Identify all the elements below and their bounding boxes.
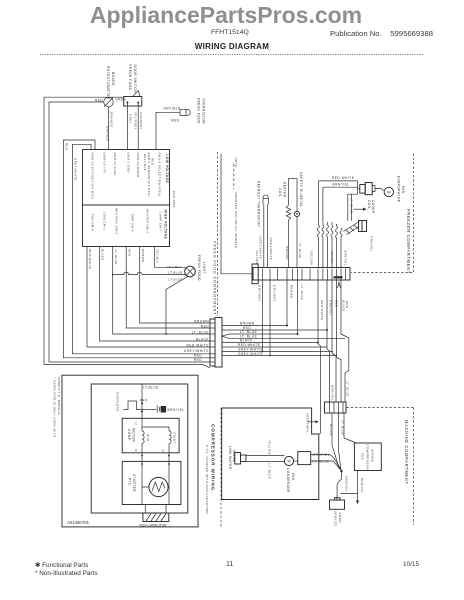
svg-text:M: M: [387, 190, 390, 195]
svg-text:LOW VOLTAGE: LOW VOLTAGE: [165, 155, 169, 184]
svg-text:GRN/YEL: GRN/YEL: [331, 385, 335, 401]
svg-text:FRESH FOOD: FRESH FOOD: [197, 255, 201, 281]
note: denotes not on all models: [234, 158, 238, 249]
svg-text:CMP CM-6: CMP CM-6: [131, 214, 135, 232]
svg-text:GND-16 +5V: GND-16 +5V: [103, 153, 107, 174]
svg-text:NOTE:: NOTE:: [234, 158, 238, 169]
svg-text:DOOR SWITCH: DOOR SWITCH: [133, 65, 137, 94]
ptc internal wires: [142, 461, 169, 504]
svg-text:GRY\BLK: GRY\BLK: [164, 107, 182, 111]
svg-text:LT.BLUE: LT.BLUE: [143, 386, 159, 390]
connector J2: [210, 318, 222, 368]
svg-text:SPLY/BLK: SPLY/BLK: [143, 154, 147, 171]
svg-text:LT.BLUE: LT.BLUE: [168, 271, 182, 275]
svg-text:SEE: SEE: [360, 453, 364, 460]
wire: grey/white bus to board pin GND-19: [72, 144, 210, 353]
svg-text:START: START: [173, 432, 177, 443]
svg-text:FRESH FOOD: FRESH FOOD: [197, 98, 201, 124]
svg-text:POTENTIOMETER: POTENTIOMETER: [106, 66, 110, 100]
svg-text:P.T.C. STARTER WITH RUN CA: P.T.C. STARTER WITH RUN CAPACITOR: [205, 445, 209, 514]
svg-text:M: M: [288, 459, 291, 463]
svg-text:RED/WHITE: RED/WHITE: [320, 300, 324, 320]
svg-text:LT. BLUE: LT. BLUE: [300, 285, 304, 301]
svg-text:BOARD: BOARD: [111, 72, 115, 86]
wire: grounding lead with arrow: [341, 471, 365, 505]
wire: thermistor to board pin GND-8: [143, 112, 180, 171]
control board U1: [83, 150, 177, 247]
labels above terminal block: [331, 381, 350, 401]
svg-text:LT. BLUE: LT. BLUE: [349, 198, 353, 214]
svg-text:COMPRESSOR: COMPRESSOR: [365, 445, 369, 470]
wire: switch pin 1 to board (grey): [127, 103, 132, 150]
run winding: [142, 418, 169, 453]
board pin label GND-16: [103, 153, 107, 174]
svg-text:MOTOR: MOTOR: [132, 428, 136, 443]
svg-text:WIRING: WIRING: [370, 449, 374, 463]
svg-text:SAFETY HI-METAL: SAFETY HI-METAL: [299, 172, 303, 207]
svg-text:GRN/YEL: GRN/YEL: [369, 236, 373, 252]
service cord plug: [330, 498, 345, 527]
svg-text:BROWN: BROWN: [141, 249, 145, 262]
svg-text:GREY/WHITE: GREY/WHITE: [269, 238, 273, 261]
svg-text:GREY/WHITE: GREY/WHITE: [184, 349, 209, 353]
svg-text:RED: RED: [140, 398, 147, 402]
board pin label GND-10: [136, 153, 140, 178]
condenser fan housing: [294, 452, 330, 465]
svg-text:RED: RED: [127, 249, 131, 256]
ptc starter: [122, 461, 181, 504]
svg-text:BROWN: BROWN: [240, 321, 255, 325]
svg-text:R: R: [135, 449, 138, 453]
start winding: [169, 431, 177, 453]
svg-text:RED: RED: [345, 301, 349, 308]
svg-text:LT. BLUE: LT. BLUE: [298, 243, 302, 259]
harness squiggles: [317, 181, 342, 268]
svg-text:CONDENSER: CONDENSER: [286, 468, 290, 493]
svg-text:RED: RED: [194, 353, 202, 357]
wire: board CM-6 red to connector: [126, 247, 210, 329]
svg-text:ESP-1600: ESP-1600: [172, 191, 176, 208]
svg-text:GND-9 SENSOR (FF NTC): GND-9 SENSOR (FF NTC): [147, 153, 151, 197]
svg-text:BLACK: BLACK: [196, 337, 209, 341]
svg-text:GRN/YEL: GRN/YEL: [313, 453, 331, 457]
wire: block to junction: [329, 413, 345, 472]
coil cover strap: [344, 200, 375, 252]
svg-text:BRN/YEL: BRN/YEL: [168, 408, 185, 412]
wire: yellow to condenser fan: [246, 440, 285, 456]
board pin label CMP CM-6: [131, 214, 135, 232]
wire: lt.blue pair from fan connector: [348, 194, 358, 221]
svg-text:FEEDTHRU: FEEDTHRU: [306, 413, 310, 432]
board pin label GND-1: [127, 153, 131, 173]
wire: lt.blue trunk with offset jog: [341, 280, 349, 402]
svg-text:COMP: COMP: [127, 429, 131, 441]
svg-text:BROWN: BROWN: [289, 285, 293, 298]
water valve: [228, 446, 246, 470]
svg-text:MACHINE COMPARTMENT: MACHINE COMPARTMENT: [404, 420, 409, 485]
svg-text:YEL\BLK: YEL\BLK: [167, 265, 182, 269]
svg-text:* CAPACITOR IS ONLY USED WITH: * CAPACITOR IS ONLY USED WITH: [53, 377, 57, 438]
svg-text:OVERLOAD: OVERLOAD: [115, 392, 119, 412]
wire: connector right red: [222, 326, 328, 331]
wire: connector right lt.blue pair with fork: [222, 330, 345, 338]
svg-text:GRN/YEL: GRN/YEL: [332, 183, 350, 187]
safety hi-metal thermal cutout: [294, 172, 303, 268]
wire: compressor common lead: [141, 384, 143, 418]
wire: lt.blue below bar: [298, 280, 304, 334]
condenser fan motor M2: [284, 456, 294, 493]
overload protector: [115, 392, 147, 412]
board pin label FAN CM-9: [91, 214, 95, 231]
board pin label LAMP CM-7: [159, 212, 163, 232]
svg-text:FRESH FOOD: FRESH FOOD: [128, 65, 132, 91]
wire: switch row to left bus: [44, 97, 210, 368]
potentiometer board P1: [95, 66, 127, 107]
svg-text:GREY/WHITE: GREY/WHITE: [74, 158, 78, 181]
svg-text:GRN/YEL: GRN/YEL: [344, 250, 348, 266]
svg-text:COIL: COIL: [278, 188, 282, 197]
svg-text:RUN CAPACITOR: RUN CAPACITOR: [140, 524, 168, 528]
svg-text:RED: RED: [194, 358, 202, 362]
svg-text:RED WHITE: RED WHITE: [332, 176, 354, 180]
svg-text:HEATER: HEATER: [282, 182, 286, 198]
fresh food thermistor RT1: [164, 98, 206, 124]
wire: lt.blue to condenser fan: [246, 462, 285, 480]
svg-text:FRESH FOOD COMPARTMENT: FRESH FOOD COMPARTMENT: [213, 241, 218, 315]
compressor wiring title: [211, 424, 216, 491]
svg-text:COIL: COIL: [367, 200, 371, 209]
diagram part number: [67, 520, 90, 525]
compressor inner box: [91, 384, 188, 513]
svg-text:EVAPORATOR: EVAPORATOR: [397, 176, 401, 203]
wire: motor pins to ptc: [141, 453, 170, 462]
svg-text:BLACK: BLACK: [101, 249, 105, 261]
svg-text:A01460701: A01460701: [67, 520, 90, 525]
board pin label HEATER CM-3: [146, 209, 150, 233]
wire: red trunk to terminal block: [332, 280, 338, 402]
svg-text:GND-8 SELECTION (FSH): GND-8 SELECTION (FSH): [158, 153, 162, 197]
svg-text:FREEZER COMPARTMENT: FREEZER COMPARTMENT: [406, 209, 411, 274]
svg-text:LT. BLUE: LT. BLUE: [313, 460, 330, 464]
fresh food compartment border: [213, 152, 218, 316]
svg-text:GRN/YEL: GRN/YEL: [345, 476, 349, 492]
svg-text:LT. BLUE: LT. BLUE: [345, 381, 349, 397]
svg-text:S: S: [162, 449, 164, 453]
fresh food door switch S1: [124, 65, 142, 107]
svg-text:CORD: CORD: [338, 513, 342, 523]
svg-text:YELLOW: YELLOW: [310, 251, 314, 266]
board pin label GND-9: [147, 153, 151, 197]
board pin label GND-11: [113, 153, 117, 177]
svg-text:PTC: PTC: [127, 478, 131, 486]
wire: junction to service cord: [337, 471, 349, 500]
evaporator fan connector: [360, 183, 384, 195]
compressor detail outer box: [62, 375, 198, 527]
board pin label GND-19: [91, 153, 95, 200]
svg-text:COMPRESSOR WIRING: COMPRESSOR WIRING: [211, 424, 216, 491]
freezer compartment border: [351, 154, 414, 274]
svg-text:RED: RED: [201, 324, 209, 328]
machine compartment border: [221, 408, 414, 529]
svg-text:SOME P.T.C. MODELS.: SOME P.T.C. MODELS.: [57, 377, 61, 416]
svg-text:DEFROST THERMOSTAT: DEFROST THERMOSTAT: [257, 181, 261, 227]
svg-text:LAMP CM-7: LAMP CM-7: [159, 212, 163, 232]
svg-text:RED-WHITE: RED-WHITE: [238, 343, 261, 347]
svg-text:ORANGE: ORANGE: [105, 126, 109, 141]
svg-text:RUN: RUN: [146, 434, 150, 442]
svg-text:COVER: COVER: [371, 200, 375, 214]
wire: potentiometer wiper to board (orange): [105, 107, 113, 150]
run capacitor: [140, 505, 169, 528]
board pin label NEUTRAL CM-4: [115, 208, 119, 235]
wire: fresh food harness to bar: [221, 154, 252, 274]
wire: board CM-7 yel/blk to light: [155, 247, 186, 270]
coil heater R2: [278, 179, 297, 268]
wire: switch pin 2 to board (violet/grey): [134, 103, 143, 150]
svg-text:BROWN: BROWN: [285, 247, 289, 260]
svg-text:ORANGE: ORANGE: [110, 112, 114, 127]
svg-text:THERMISTOR: THERMISTOR: [201, 98, 205, 124]
wire: board CM-9 red/white to connector: [87, 247, 210, 348]
svg-text:NEUTRAL CM-4: NEUTRAL CM-4: [115, 208, 119, 235]
wire: red bus to board pin GND-16: [63, 140, 210, 358]
wire: lt.blue branch to light with hops: [113, 271, 186, 275]
svg-text:YELLOW: YELLOW: [255, 250, 259, 265]
wire: connector right red-white: [222, 343, 327, 347]
svg-text:SERVICE: SERVICE: [334, 511, 338, 527]
wire: light return lt.blue down to connector wire: [165, 276, 188, 335]
wire: brown below bar: [287, 280, 293, 326]
wire: board CM-4 lt.blue to connector: [112, 247, 210, 335]
svg-text:LOW WATER: LOW WATER: [228, 446, 232, 470]
wire: grn/yel run to evaporator fan: [323, 181, 360, 194]
wire: board CM-3 brown to connector: [140, 247, 210, 324]
svg-text:VALVE: VALVE: [232, 450, 236, 462]
svg-text:BLACK: BLACK: [341, 300, 345, 312]
wire: connector right grey-white 2: [222, 352, 337, 356]
board pin label LINE CM-1: [103, 212, 107, 230]
wire: red/white trunk to machine compartment: [318, 280, 324, 434]
svg-text:LT. BLUE: LT. BLUE: [267, 464, 271, 480]
svg-text:RED/WHITE: RED/WHITE: [88, 249, 92, 269]
wire: black trunk to terminal block: [337, 280, 346, 402]
svg-text:BLACK: BLACK: [240, 339, 253, 343]
see compressor wiring box: [354, 443, 381, 471]
svg-text:RED-WHITE: RED-WHITE: [186, 343, 209, 347]
svg-text:LIGHT: LIGHT: [202, 262, 206, 274]
wire: board CM-1 black to connector: [100, 247, 211, 342]
svg-text:GREY: GREY: [129, 114, 133, 124]
svg-text:GRY/WHT: GRY/WHT: [257, 285, 261, 302]
svg-text:HIGH VOLTAGE: HIGH VOLTAGE: [164, 210, 168, 240]
wire: fan leads to junction: [311, 455, 342, 472]
brn/yel tap connector: [142, 406, 185, 414]
svg-text:BLACK: BLACK: [330, 252, 334, 264]
terminal block: [325, 402, 347, 413]
wire: grey/white pair below bar: [257, 280, 276, 356]
capacitor footnote: [53, 377, 62, 438]
svg-text:GREY-WHITE: GREY-WHITE: [238, 352, 263, 356]
svg-text:GND-19 ECT/BST (FZ NTC): GND-19 ECT/BST (FZ NTC): [91, 153, 95, 200]
svg-text:GREY: GREY: [115, 98, 126, 102]
svg-text:RED: RED: [171, 119, 179, 123]
svg-text:LT.BLUE: LT.BLUE: [169, 278, 183, 282]
svg-text:RED: RED: [65, 143, 69, 150]
svg-text:FAN: FAN: [291, 473, 295, 481]
wire: defrost tstat grey/white pair to bar: [259, 205, 273, 268]
wire: connector right brown: [222, 321, 288, 326]
svg-text:LT. BLUE: LT. BLUE: [114, 249, 118, 265]
svg-text:HEATER CM-3: HEATER CM-3: [146, 209, 150, 233]
evaporator fan motor M1: [384, 176, 405, 203]
harness connector bar: [252, 264, 350, 284]
svg-text:LT. BLUE: LT. BLUE: [192, 330, 209, 334]
svg-text:BRN/YEL: BRN/YEL: [360, 478, 364, 494]
compressor motor: [122, 418, 179, 453]
svg-text:GND-10 DOOR: GND-10 DOOR: [136, 153, 140, 178]
svg-text:LT. BLUE: LT. BLUE: [240, 330, 257, 334]
wire: grn/yel trunk to terminal block: [327, 280, 332, 402]
svg-text:BLACK: BLACK: [329, 424, 333, 436]
svg-text:LINE CM-1: LINE CM-1: [103, 212, 107, 230]
dotted rule under title: [40, 54, 424, 56]
twisted pair peak below bar: [338, 283, 341, 289]
wire: connector right grey-white 1: [222, 348, 333, 352]
svg-text:GND-11 CTRL: GND-11 CTRL: [113, 153, 117, 177]
svg-text:GND-1 GND: GND-1 GND: [127, 153, 131, 173]
svg-text:C: C: [135, 422, 138, 426]
compressor wiring subtitle: [205, 445, 209, 514]
svg-text:YELLOW: YELLOW: [267, 440, 271, 455]
wire: block to see-compressor box: [344, 413, 356, 443]
wire: red white run to evaporator fan: [318, 176, 357, 181]
condenser enclosure: [222, 408, 319, 500]
svg-text:STARTER: STARTER: [132, 474, 136, 492]
wire: connector right black: [222, 339, 319, 344]
board pin label GND-8: [158, 153, 162, 197]
defrost thermostat: [257, 181, 269, 227]
svg-text:YEL\BLK: YEL\BLK: [156, 249, 160, 264]
fresh food light DS1: [185, 255, 206, 281]
wire: potentiometer to left bus: [49, 102, 210, 362]
svg-text:DENOTES NOT ON ALL MODELS: DENOTES NOT ON ALL MODELS: [234, 193, 238, 249]
svg-text:VIO/GREY: VIO/GREY: [139, 112, 143, 130]
connector J2 left side labels: [184, 319, 210, 362]
harness wire labels above bar: [255, 250, 348, 266]
feedthrough label and arrow: [306, 413, 319, 432]
svg-text:BROWN: BROWN: [194, 319, 209, 323]
svg-text:FAN: FAN: [401, 186, 405, 194]
svg-text:FAN CM-9: FAN CM-9: [91, 214, 95, 231]
svg-text:YEL/GREY: YEL/GREY: [134, 112, 138, 130]
svg-text:GRY/WHT: GRY/WHT: [272, 285, 276, 302]
